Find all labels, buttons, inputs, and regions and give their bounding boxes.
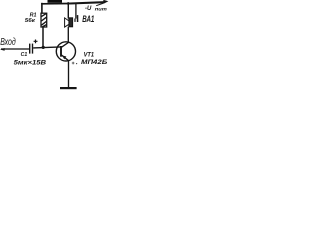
transistor base bar	[60, 46, 62, 57]
node rail-speaker junction dot	[67, 2, 70, 5]
transistor collector	[61, 27, 68, 48]
wire resistor top lead	[41, 3, 43, 14]
wire resistor bottom lead	[42, 27, 44, 48]
node base junction dot	[42, 46, 45, 49]
wire capacitor to base	[33, 47, 61, 48]
svg-text:МП42Б: МП42Б	[81, 59, 108, 66]
transistor VT1 circle	[56, 42, 75, 61]
wire thick bar artifact over top rail	[48, 0, 63, 3]
terminal mark right bar	[77, 15, 79, 22]
svg-text:пит: пит	[95, 7, 107, 12]
wire input to capacitor	[1, 48, 29, 50]
svg-text:-U: -U	[85, 6, 92, 12]
svg-text:56к: 56к	[25, 18, 37, 24]
speaker BA1 horn	[65, 18, 69, 27]
transistor emitter with arrow	[61, 55, 69, 88]
wire top supply rail	[41, 3, 70, 5]
capacitor C1 plates	[29, 44, 30, 54]
speaker BA1 box	[69, 18, 73, 27]
bottom terminal bar	[60, 87, 77, 89]
svg-text:С1: С1	[21, 52, 28, 58]
arrowhead input left	[0, 48, 5, 51]
svg-text:VT1: VT1	[84, 52, 95, 59]
svg-text:Вход: Вход	[0, 36, 16, 48]
wire speaker drop from rail	[67, 3, 69, 19]
capacitor plus sign	[34, 40, 38, 44]
svg-text:ВА1: ВА1	[82, 13, 94, 24]
resistor R1 body	[41, 13, 47, 27]
terminal mark left bar	[74, 19, 75, 22]
wire second drop from rail	[75, 3, 77, 19]
speck plus near emitter	[72, 62, 75, 65]
svg-text:5мк×15В: 5мк×15В	[14, 59, 47, 66]
arrowhead right end of supply rail	[96, 3, 103, 6]
